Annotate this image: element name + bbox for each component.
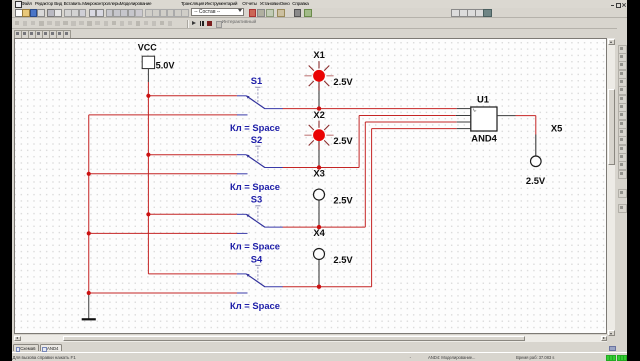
wire net2: S2 output to node X2 — [283, 167, 360, 169]
node junction X4 — [317, 285, 321, 289]
logic block U1 AND4 — [471, 94, 498, 144]
wire net4 vertical riser — [371, 129, 373, 287]
probe X1 (indicator, 2.5V) lit — [304, 61, 333, 108]
wire ground branch to S4 bottom throw — [89, 292, 238, 294]
pin stub U1 input C — [457, 121, 471, 123]
power symbol VCC (V1) 5.0V — [138, 42, 176, 82]
ground symbol — [82, 293, 96, 319]
junction on VCC bus at S3 branch — [146, 212, 150, 216]
pin stub U1 output — [497, 115, 516, 117]
wire net4: S4 output to node X4 — [283, 286, 372, 288]
svg-text:AND4: AND4 — [471, 132, 497, 143]
wire VCC branch to S2 top throw — [148, 154, 237, 156]
pin stub U1 input D — [457, 128, 471, 130]
junction on ground bus at S2 branch — [87, 172, 91, 176]
svg-text:S1: S1 — [251, 75, 262, 86]
wire U1 output net to probe X5 — [516, 116, 536, 135]
wire ground branch to S3 bottom throw — [89, 232, 238, 234]
wire ground bus vertical — [88, 115, 90, 293]
wire net2 to U1 pin B — [359, 115, 456, 117]
svg-text:2.5V: 2.5V — [333, 254, 353, 265]
svg-text:Кл = Space: Кл = Space — [230, 240, 280, 251]
wire S1 output to node X1 and U1 pin A — [283, 108, 457, 110]
svg-text:X1: X1 — [313, 49, 324, 60]
switch S4 (SPDT, key=Space) — [230, 253, 283, 311]
wire net3 to U1 pin C — [365, 121, 456, 123]
wire net2 vertical riser — [358, 116, 360, 168]
probe X2 (indicator, 2.5V) lit — [304, 121, 333, 168]
node junction X2 — [317, 165, 321, 169]
probe X3 (indicator, 2.5V) — [314, 189, 325, 227]
pin stub U1 input A — [457, 108, 471, 110]
node junction X3 — [317, 225, 321, 229]
switch S3 (SPDT, key=Space) — [230, 194, 283, 252]
svg-text:2.5V: 2.5V — [333, 76, 353, 87]
pin stub U1 input B — [456, 115, 471, 117]
switch S1 (SPDT, key=Space) — [230, 75, 283, 133]
svg-text:2.5V: 2.5V — [333, 135, 353, 146]
switch S2 (SPDT, key=Space) — [230, 134, 283, 192]
probe X4 (indicator, 2.5V) — [314, 249, 325, 287]
svg-text:Кл = Space: Кл = Space — [230, 181, 280, 192]
svg-text:S4: S4 — [251, 253, 263, 264]
svg-text:5.0V: 5.0V — [156, 61, 176, 71]
svg-text:Кл = Space: Кл = Space — [230, 122, 280, 133]
svg-text:S3: S3 — [251, 194, 262, 205]
svg-text:Кл = Space: Кл = Space — [230, 300, 280, 311]
wire VCC branch to S3 top throw — [148, 213, 237, 215]
wire ground branch to S1 bottom throw — [89, 114, 238, 116]
probe X5 (output indicator, 2.5V) — [531, 135, 542, 167]
wire net3 vertical riser — [364, 122, 366, 227]
wire net3: S3 output to node X3 — [283, 226, 366, 228]
svg-text:X5: X5 — [551, 122, 562, 133]
wire VCC branch to S1 top throw — [148, 95, 237, 97]
wire VCC bus elbow to S4 throw — [148, 273, 237, 275]
junction on ground bus at S4 branch — [87, 291, 91, 295]
node junction X1 — [317, 106, 321, 110]
svg-text:2.5V: 2.5V — [526, 175, 546, 186]
wire net4 to U1 pin D — [372, 128, 457, 130]
svg-text:S2: S2 — [251, 134, 262, 145]
junction on VCC bus at S2 branch — [146, 153, 150, 157]
svg-text:2.5V: 2.5V — [333, 195, 353, 206]
svg-text:VCC: VCC — [138, 42, 158, 52]
svg-text:U1: U1 — [477, 94, 489, 105]
junction on VCC bus at S1 branch — [146, 94, 150, 98]
junction on ground bus at S3 branch — [87, 231, 91, 235]
wire ground branch to S2 bottom throw — [89, 173, 238, 175]
wire VCC bus vertical — [147, 82, 149, 274]
